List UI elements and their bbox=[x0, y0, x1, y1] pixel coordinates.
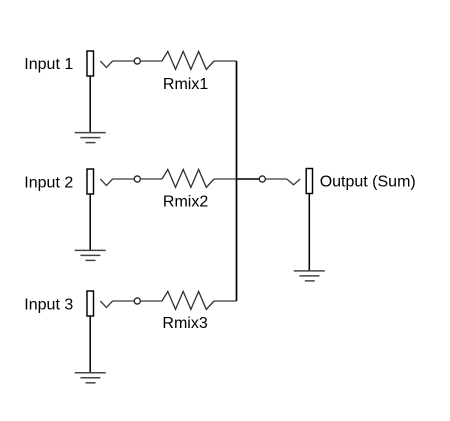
resistor Rmix3 bbox=[162, 291, 214, 309]
terminal circle input 3 bbox=[134, 298, 140, 304]
wire terminal to Rmix1 bbox=[141, 60, 162, 62]
svg-text:Rmix3: Rmix3 bbox=[162, 315, 207, 332]
ground output bbox=[294, 271, 325, 281]
svg-text:Output (Sum): Output (Sum) bbox=[320, 174, 416, 191]
wire J2 sleeve to ground bbox=[89, 194, 91, 250]
jack J2 tip contact bbox=[100, 179, 112, 185]
input jack J1 body bbox=[87, 51, 94, 76]
input jack J3 body bbox=[87, 291, 94, 316]
output jack J4 body bbox=[306, 169, 312, 194]
wire J2 tip to terminal bbox=[113, 178, 134, 180]
wire J3 sleeve to ground bbox=[89, 316, 91, 373]
node: bus to output junction bbox=[237, 178, 260, 180]
jack J4 tip contact bbox=[287, 179, 300, 185]
resistor Rmix1 bbox=[162, 51, 214, 69]
svg-text:Input 1: Input 1 bbox=[24, 56, 73, 73]
svg-text:Rmix1: Rmix1 bbox=[163, 76, 208, 93]
resistor Rmix2 bbox=[162, 169, 214, 187]
svg-text:Input 3: Input 3 bbox=[24, 297, 73, 314]
wire Rmix2 to bus bbox=[214, 178, 237, 180]
ground input 3 bbox=[75, 373, 106, 383]
jack J1 tip contact bbox=[100, 61, 112, 67]
terminal circle input 1 bbox=[134, 58, 140, 64]
ground input 2 bbox=[75, 250, 106, 260]
wire Rmix1 to bus bbox=[214, 60, 237, 62]
terminal circle output bbox=[259, 176, 265, 182]
jack J3 tip contact bbox=[100, 301, 112, 307]
input jack J2 body bbox=[87, 169, 94, 194]
svg-text:Input 2: Input 2 bbox=[24, 174, 73, 191]
wire output terminal to jack tip bbox=[266, 178, 287, 180]
wire terminal to Rmix2 bbox=[141, 178, 162, 180]
summing bus wire bbox=[236, 61, 238, 301]
svg-text:Rmix2: Rmix2 bbox=[163, 194, 208, 211]
wire J1 sleeve to ground bbox=[89, 76, 91, 133]
ground input 1 bbox=[75, 133, 106, 143]
wire terminal to Rmix3 bbox=[141, 300, 162, 302]
wire J4 sleeve to ground bbox=[308, 194, 310, 271]
terminal circle input 2 bbox=[134, 176, 140, 182]
wire Rmix3 to bus bbox=[214, 300, 237, 302]
wire J1 tip to terminal bbox=[113, 60, 134, 62]
wire J3 tip to terminal bbox=[113, 300, 134, 302]
